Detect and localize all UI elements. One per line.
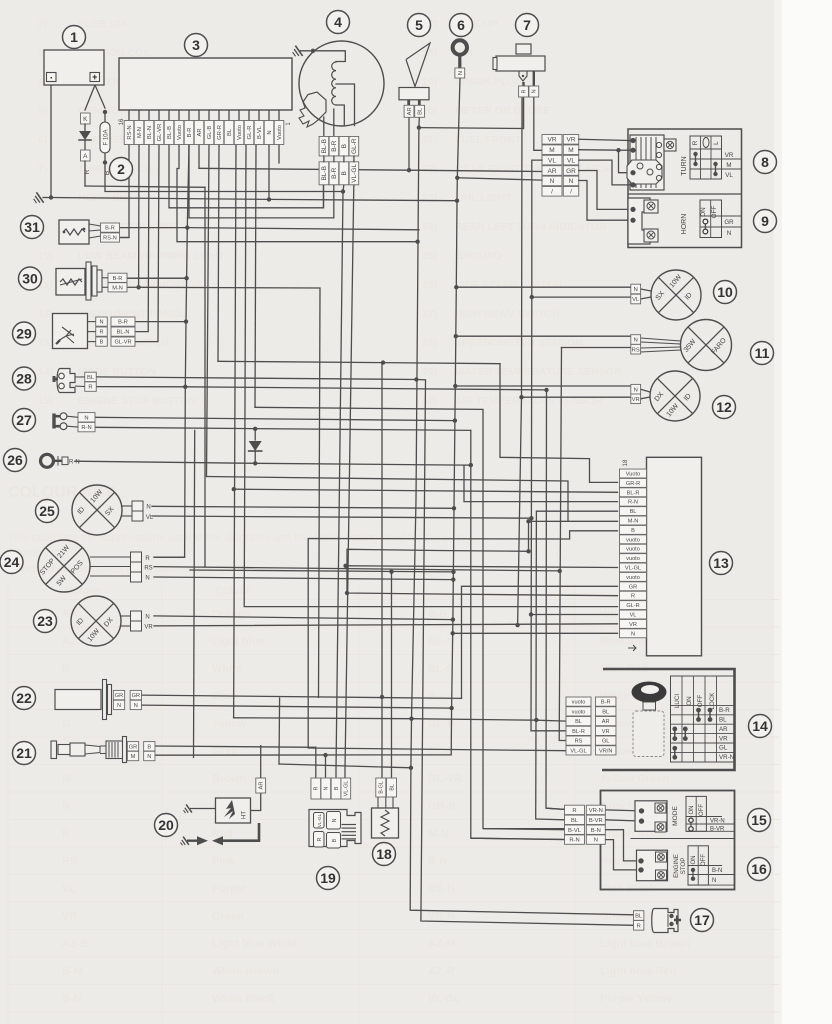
svg-text:14: 14 [752,718,768,734]
svg-text:15): 15) [38,395,53,407]
svg-text:BL: BL [630,509,637,515]
wire lamp25 VL to VL bus [152,516,531,518]
svg-text:vuoto: vuoto [572,709,586,715]
svg-text:B: B [100,340,104,346]
spark gap arrows [179,837,189,848]
svg-text:B-R: B-R [113,276,123,282]
svg-text:GL: GL [719,745,728,752]
ground symbol generator [291,46,302,58]
mode connector left cols [565,805,585,814]
svg-text:ENGINE STOP BUTTON: ENGINE STOP BUTTON [78,395,196,407]
wire lamp24 RS right [154,567,560,571]
svg-text:OFF: OFF [699,804,705,816]
svg-text:R: R [521,89,527,93]
svg-text:AR: AR [719,726,728,733]
svg-text:R: R [62,828,70,840]
svg-text:2: 2 [117,161,125,177]
svg-text:RS: RS [575,739,583,745]
svg-text:16: 16 [119,118,125,125]
wire comp22 N to trunk [142,705,452,708]
wire R stop net to comp15 [546,390,565,810]
wire ECU BL-B pin to generator connector [169,145,324,208]
svg-text:vuoto: vuoto [626,547,640,553]
svg-text:N: N [146,505,150,511]
label circle 2 [110,158,133,181]
wire GR-R long run to panel [218,361,500,363]
speedometer sensor 21 [51,741,57,759]
wire layer [32,41,634,925]
wire ECU GL-R pin down to comp13 [244,145,617,607]
svg-text:24: 24 [4,554,20,570]
wire comp28 R to stop net [96,387,547,390]
svg-text:24): 24) [422,221,437,233]
svg-text:26): 26) [422,279,437,291]
svg-text:B-R: B-R [331,140,338,152]
svg-text:BL-B: BL-B [167,126,173,139]
svg-text:Vuoto: Vuoto [626,472,640,478]
wire lamp24 R to R bus [154,556,185,558]
svg-text:Vuoto: Vuoto [277,125,283,140]
wire BL bus to comp14 [234,718,566,721]
svg-text:BL-N: BL-N [117,330,130,336]
svg-text:N: N [145,615,149,621]
label circle 17 [691,909,714,932]
svg-text:HT: HT [242,811,248,819]
wire gen VL-GL bus down to comp19 [345,185,354,778]
wire ECU Vuoto stub [278,145,280,163]
label circle 8 [754,151,777,174]
svg-text:B-M: B-M [62,966,83,978]
svg-text:R: R [84,169,91,174]
svg-text:R: R [637,923,641,929]
svg-text:B-R: B-R [331,167,338,179]
svg-text:VL: VL [567,157,575,164]
wire comp30 M-N to bus [127,286,139,288]
svg-text:METER OR GLOBE: METER OR GLOBE [455,105,551,117]
svg-text:B-R: B-R [118,320,128,326]
wire ground bus [51,198,457,201]
wire R-N feeder to comp13 and comp15 [464,465,618,502]
wire gen B bus down to comp19 [336,192,343,779]
label circle 4 [327,11,350,34]
svg-text:B: B [334,786,340,790]
wire lamp25 N to trunk [152,506,454,508]
svg-text:Yellow: Yellow [212,718,247,730]
svg-text:23): 23) [422,192,437,204]
svg-text:N: N [324,786,330,790]
wire lamp10 N [456,286,631,288]
svg-text:FUEL FRONT: FUEL FRONT [455,134,522,146]
svg-text:N: N [147,754,151,760]
wire BL feeder down to comp15 [535,720,537,819]
svg-text:N: N [99,320,103,326]
svg-text:STOP: STOP [680,858,687,875]
wire comp6 N trunk [457,78,460,178]
wire N jog to engine stop [605,840,641,870]
svg-text:N: N [550,178,555,185]
headlamp 11 [681,320,732,371]
svg-text:VL: VL [632,297,640,303]
svg-text:B: B [341,144,348,148]
wire lamp23 N to trunk [154,616,453,620]
svg-text:AZ-R: AZ-R [428,966,454,978]
wire mode VR-N B-VR to switch [605,810,641,811]
resistor 18 [376,778,386,797]
svg-text:OFF: OFF [701,854,707,866]
wire comp31 RS-N to ECU [120,237,130,239]
svg-text:VL: VL [630,613,637,619]
svg-text:30): 30) [422,395,437,407]
svg-text:Purple: Purple [212,883,246,895]
label circle 18 [373,843,396,866]
svg-text:BL: BL [389,784,395,791]
svg-text:26: 26 [7,452,23,468]
svg-text:/: / [551,189,553,196]
svg-text:M: M [568,147,573,154]
svg-text:R-N: R-N [569,838,579,844]
svg-text:VL: VL [146,515,154,521]
label circle 11 [751,342,774,365]
wire ECU BL-N pin down to comp29 [136,145,150,332]
svg-text:16: 16 [751,861,767,877]
svg-text:+: + [92,72,97,82]
water temp sensor 22 [55,690,101,710]
svg-text:R: R [572,808,576,814]
wire ECU M-N pin down [138,145,140,287]
svg-text:G: G [62,718,71,730]
svg-text:This table lists the abbreviat: This table lists the abbreviations used … [8,532,471,544]
svg-text:Light blue: Light blue [212,636,265,648]
svg-text:GR-R: GR-R [428,801,456,813]
svg-text:WATER TEMPERATURE SENSOR: WATER TEMPERATURE SENSOR [455,366,622,378]
svg-text:10): 10) [38,250,53,262]
label circle 12 [713,396,736,419]
wire lamp24 N to trunk [154,577,453,580]
wire comp7 pin2 down [534,98,542,151]
wire generator ground to coil [300,51,345,62]
svg-text:B-GL: B-GL [379,781,385,794]
svg-text:6: 6 [457,17,465,33]
svg-text:BL: BL [87,375,95,381]
air temp sensor 29 [53,314,88,349]
svg-text:N: N [62,801,70,813]
svg-text:GR: GR [129,744,137,750]
svg-text:BL-R: BL-R [627,490,640,496]
svg-text:AZ-B: AZ-B [62,938,88,950]
svg-text:N: N [631,631,635,637]
svg-text:B-VL: B-VL [428,691,454,703]
svg-text:M-N: M-N [628,519,639,525]
wire VR net comp7 down [521,98,524,398]
svg-text:RS-N: RS-N [103,236,117,242]
svg-text:GROUND: GROUND [455,250,502,262]
rear left lamp 25 [72,485,122,535]
svg-text:VR-N: VR-N [710,818,725,824]
wire ECU BL pin down - BL bus [234,145,236,718]
svg-text:ENGINE: ENGINE [673,854,680,878]
label circle 21 [13,742,36,765]
ignition switch 14 [602,669,735,770]
wires between generator blocks [323,156,325,162]
svg-text:White Black: White Black [212,993,275,1005]
tail light 24 [38,540,90,592]
connector block right column [563,135,579,145]
svg-text:M: M [131,754,136,760]
svg-text:N: N [145,576,149,582]
svg-text:M-N: M-N [137,127,143,138]
svg-text:B-N: B-N [712,868,722,874]
svg-text:GL-VR: GL-VR [114,340,131,346]
svg-text:GL-B: GL-B [207,126,213,140]
fuel sensor 17 [634,911,644,921]
svg-text:VR: VR [719,735,728,742]
svg-text:▪: ▪ [50,76,52,82]
wire ECU B-R pin down - B-R bus [187,145,189,228]
wire RS net lamp11 to comp14 [559,348,566,741]
label circle 9 [754,210,777,233]
svg-text:BL: BL [635,914,643,920]
fuel level sensor 30 [56,269,85,296]
key symbol [632,682,667,703]
svg-text:VL-GL: VL-GL [344,781,350,797]
ignition connector columns [566,697,591,706]
svg-text:GL-R: GL-R [247,126,253,140]
svg-text:17: 17 [694,912,710,928]
switch assembly box 8-9 [628,129,742,248]
svg-text:VR: VR [144,625,153,631]
wire lamp10 VL [532,296,631,298]
ECU box 3 [119,58,292,110]
diode D2 [254,429,256,440]
wire pickup outputs [323,117,325,137]
wire coil bottom [336,105,344,126]
svg-text:10: 10 [717,284,733,300]
svg-text:M: M [62,773,71,785]
eyelet terminal 6 [453,40,467,54]
svg-text:3: 3 [192,37,200,53]
svg-text:R: R [145,556,150,562]
svg-text:B-R: B-R [601,700,611,706]
svg-text:VL-GL: VL-GL [351,164,358,183]
generator pickup shape [303,92,326,120]
wire ECU N pin down to ground bus [268,145,270,199]
label circle 7 [516,14,539,37]
wire conn VL right jog [579,160,629,185]
wire conn N right to horn [579,181,629,221]
wire lamp12 N [455,385,631,387]
wire GR-R jog to comp13 [500,364,618,483]
rear right lamp 23 [71,596,121,646]
wire ECU B-VL pin down [255,145,256,407]
wire ECU GR-R pin down to jog [218,145,219,361]
wire comp13 GR pin [462,586,618,698]
svg-text:VL-GL: VL-GL [570,748,586,754]
svg-text:Vuoto: Vuoto [177,125,183,140]
svg-text:R: R [99,330,103,336]
engine stop table [688,846,708,885]
wires into mode connector [546,808,565,809]
svg-text:N: N [594,838,598,844]
svg-text:M: M [549,147,554,154]
svg-text:BL: BL [227,128,233,136]
svg-text:VL-GL: VL-GL [317,813,322,827]
svg-text:BL: BL [571,818,579,824]
svg-text:N: N [727,230,731,237]
svg-text:AR: AR [602,719,610,725]
svg-text:F 10A: F 10A [103,129,109,145]
svg-text:GR: GR [132,693,140,699]
svg-text:23: 23 [37,613,53,629]
svg-text:BL-N: BL-N [428,636,454,648]
turn switch connector drawing [630,135,664,190]
svg-text:GR: GR [566,168,576,175]
label circle 31 [21,216,44,239]
svg-text:6): 6) [38,134,47,146]
svg-text:N: N [458,71,464,75]
svg-text:7: 7 [523,17,531,33]
svg-text:14): 14) [38,366,53,378]
svg-text:7): 7) [38,163,47,175]
svg-text:Yellow Green: Yellow Green [600,773,669,785]
label circle 1 [63,26,86,49]
wire vuoto pin jog y241 line [177,145,418,242]
wire conn M right to turn switch [579,149,619,152]
svg-text:REAR RIGHT TURN INDICATOR: REAR RIGHT TURN INDICATOR [455,163,613,175]
svg-text:ON: ON [686,696,693,705]
svg-text:R: R [314,786,320,790]
svg-text:BL-N: BL-N [147,126,153,139]
svg-text:AZ-M: AZ-M [428,938,456,950]
label circle 3 [185,34,208,57]
front turn lamp 12 [650,371,700,421]
svg-text:ON: ON [700,207,707,216]
svg-text:N: N [532,89,538,93]
label circle 15 [748,809,771,832]
svg-text:VL: VL [725,172,733,179]
svg-text:R: R [88,385,92,391]
label circle 10 [714,281,737,304]
wire comp5 AR drop [408,117,410,170]
wire comp18 B-GL up [381,697,383,778]
svg-text:Purple Yellow: Purple Yellow [600,993,672,1005]
svg-text:GR-R: GR-R [626,481,640,487]
label circle 16 [748,858,771,881]
svg-text:HORN: HORN [681,214,688,235]
generator connector block 1 [319,136,329,156]
svg-text:1: 1 [70,29,78,45]
ground symbol battery [43,197,51,199]
svg-text:N: N [634,338,638,344]
svg-text:Pink: Pink [212,856,236,868]
wire ECU GL-B pin down left side [207,145,210,477]
wire comp7 stub1 [523,98,525,129]
wire comp30 B-R to bus [127,277,187,279]
wire M-N row tie x528 [529,520,569,522]
svg-text:OFF: OFF [711,206,718,219]
A box [81,150,91,161]
CDI connector 19 [311,778,321,799]
wire comp21 B to comp19 R [156,746,316,747]
ring terminal 26 [41,454,54,467]
label circle 23 [34,610,57,633]
svg-text:VR-N: VR-N [719,754,734,761]
svg-text:GL-VR: GL-VR [428,773,462,785]
svg-text:Vuoto: Vuoto [237,125,243,140]
svg-text:vuoto: vuoto [572,700,586,706]
svg-text:White: White [212,663,242,675]
svg-text:M-N: M-N [428,828,449,840]
front turn lamp 10 [651,270,701,320]
side stand switch 5 [406,43,430,87]
wire coil tap mid [336,84,355,126]
flasher unit 31 [59,220,89,244]
wire A down label R [84,161,86,186]
wire comp27 N to trunk [95,417,455,420]
wire comp26 R-N line [75,461,464,465]
wire ECU AR pin down and AR net [198,145,200,168]
wire comp31 B-R to bus [120,227,188,229]
svg-text:/: / [570,189,572,196]
connector block below comp7 left column [542,135,562,145]
svg-text:BL: BL [602,709,609,715]
svg-text:4: 4 [334,14,342,30]
wire conn VR right to turn switch [579,139,629,140]
svg-text:2): 2) [38,18,47,30]
front stop switch 28 [57,369,75,393]
wire lamp11 N [456,335,631,337]
label circle 25 [36,500,59,523]
svg-text:R: R [692,140,699,145]
wire lamp23 VR to comp13 VR [154,624,618,626]
engine stop switch 16 drawing [637,850,668,881]
svg-text:R-N: R-N [81,425,91,431]
wire B-VL run to comp15 [255,407,565,828]
svg-text:GL-VR: GL-VR [157,124,163,142]
svg-text:19: 19 [320,870,336,886]
wire B-R bus branch right [187,228,419,230]
svg-text:GR: GR [724,219,734,226]
svg-text:B-N: B-N [591,828,601,834]
wire conn N left to trunk [457,178,542,180]
svg-text:GR: GR [115,693,123,699]
wire comp13 VL-GL pin to generator bus [346,566,618,568]
svg-text:VL-GL: VL-GL [428,993,461,1005]
label circle 24 [0,551,23,574]
wire conn VL left down [532,160,542,297]
svg-text:GL: GL [602,739,609,745]
diode D1 [84,124,86,131]
svg-text:REAR LEFT TURN INDICATOR: REAR LEFT TURN INDICATOR [455,221,607,233]
svg-text:30: 30 [22,271,38,287]
svg-text:Orange: Orange [212,608,251,620]
svg-text:N: N [134,703,138,709]
wire comp18 BL up [391,572,393,778]
ECU pins [128,110,130,121]
svg-text:13: 13 [713,555,729,571]
svg-text:12): 12) [38,308,53,320]
label circle 19 [317,867,340,890]
svg-text:BL: BL [719,717,727,724]
svg-text:VR: VR [629,622,637,628]
label circle 5 [408,14,431,37]
wire comp19 R up [315,747,317,778]
wire comp5 BL down - BL switch bus [418,117,420,127]
svg-text:Light blue Brown: Light blue Brown [600,938,690,950]
svg-text:N: N [332,818,338,822]
svg-text:28: 28 [16,371,32,387]
svg-text:R-N: R-N [428,856,448,868]
wire battery minus to ground [50,85,52,198]
